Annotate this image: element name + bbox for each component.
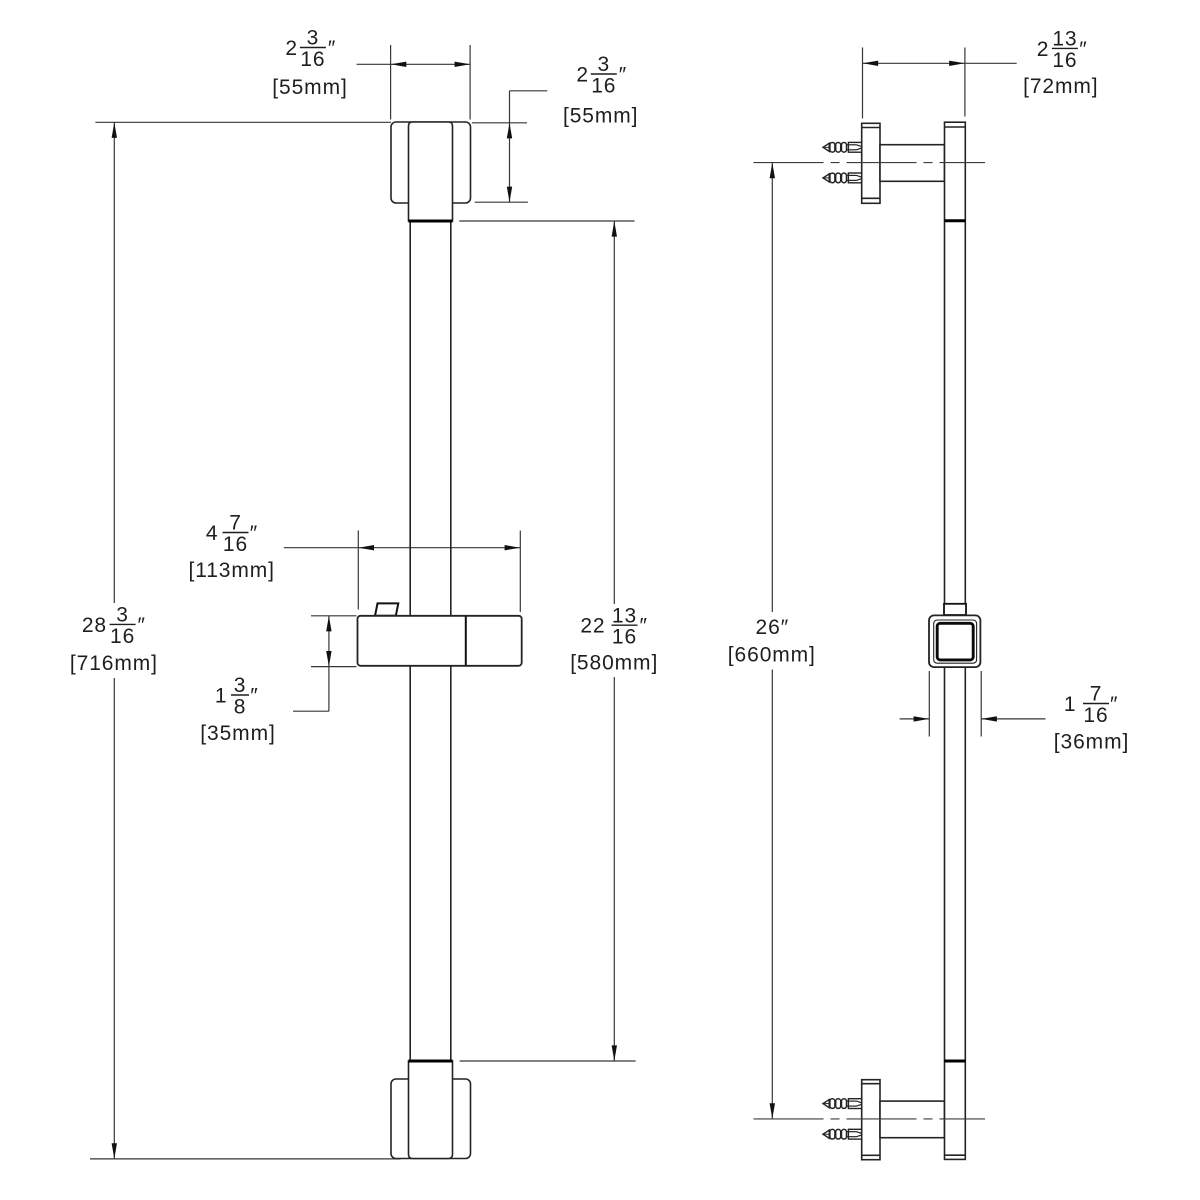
side view: bar bottom chamfer line <box>945 1154 966 1156</box>
svg-text:[55mm]: [55mm] <box>563 105 638 128</box>
svg-text:2: 2 <box>1037 38 1050 61</box>
dim 1 7/16in 36mm slider depth: label <box>1054 683 1129 754</box>
svg-text:28: 28 <box>82 614 107 637</box>
side view: slider middle square <box>934 620 977 663</box>
side view: slider lever collar <box>944 604 966 615</box>
svg-text:16: 16 <box>612 626 637 649</box>
dim 26in 660mm mounting centers: label <box>728 616 816 667</box>
dim 22 13/16in 580mm bar length: extension lines <box>459 221 635 1061</box>
side view: top mount arm <box>880 145 945 182</box>
svg-text:3: 3 <box>116 604 129 627</box>
dim 2 3/16in 55mm top width: dimension line <box>357 63 471 65</box>
dim 28 3/16in 716mm overall height: label <box>70 604 158 675</box>
dim 2 3/16in 55mm plate height: label <box>563 53 638 127</box>
dim 2 3/16in 55mm top width: extension lines <box>391 45 471 120</box>
svg-text:[36mm]: [36mm] <box>1054 731 1129 754</box>
svg-text:7: 7 <box>1090 683 1103 706</box>
dim 28 3/16in 716mm overall height: arrowheads <box>112 122 117 1158</box>
svg-text:1: 1 <box>215 684 228 707</box>
dim 1 7/16in 36mm slider depth: arrow lines <box>900 718 1046 720</box>
side view: top centerline <box>754 162 986 164</box>
side view: bottom wall plate chamfer lines <box>862 1084 880 1156</box>
svg-text:″: ″ <box>250 522 258 545</box>
side view: bottom centerline <box>754 1118 986 1120</box>
side view: slide bar body <box>945 122 966 1159</box>
dim 1 3/8in 35mm slider height: label <box>200 674 275 745</box>
svg-text:″: ″ <box>328 37 336 60</box>
side view: bottom wall plate <box>862 1080 880 1160</box>
svg-text:16: 16 <box>110 625 135 648</box>
svg-text:16: 16 <box>1083 704 1108 727</box>
dim 2 3/16in 55mm top width: label <box>272 27 347 99</box>
side view: top wall plate <box>862 123 880 203</box>
front view: bottom wall plate <box>391 1079 471 1159</box>
side view: top joint line <box>944 219 965 222</box>
svg-text:[580mm]: [580mm] <box>570 652 658 675</box>
svg-text:2: 2 <box>576 63 589 86</box>
svg-text:″: ″ <box>640 615 648 638</box>
svg-text:13: 13 <box>1052 28 1077 51</box>
svg-text:[55mm]: [55mm] <box>272 76 347 99</box>
dim 26in 660mm mounting centers: dimension line <box>771 163 773 1119</box>
svg-text:″: ″ <box>619 63 627 86</box>
svg-text:22: 22 <box>580 615 605 638</box>
front view: top bar holder <box>409 122 453 221</box>
side view: bottom joint line <box>944 1060 965 1063</box>
dim 2 13/16in 72mm depth: dimension line and leader <box>863 62 1017 64</box>
front view: top wall plate <box>391 122 471 203</box>
dim 22 13/16in 580mm bar length: dimension line <box>613 221 615 1061</box>
svg-text:[660mm]: [660mm] <box>728 644 816 667</box>
front view: bottom bar holder <box>409 1061 453 1159</box>
dim 2 13/16in 72mm depth: extension lines <box>863 48 965 119</box>
dim 4 7/16in 113mm slider width: arrowheads <box>359 545 521 550</box>
dim 28 3/16in 716mm overall height: dimension line <box>113 122 115 1159</box>
svg-text:″: ″ <box>1079 38 1087 61</box>
svg-text:2: 2 <box>285 37 298 60</box>
front view: slide bar body <box>410 221 451 1061</box>
side view: top mount screw lower <box>822 173 862 183</box>
svg-text:16: 16 <box>591 74 616 97</box>
dim 2 13/16in 72mm depth: arrowheads <box>863 61 965 66</box>
side view: slider inner square <box>937 623 973 660</box>
dim 1 3/8in 35mm slider height: arrowheads <box>326 616 331 667</box>
dim 2 13/16in 72mm depth: label <box>1023 28 1098 98</box>
dim 4 7/16in 113mm slider width: extension lines <box>358 531 520 613</box>
dim 2 3/16in 55mm plate height: dimension line with jog <box>510 91 548 202</box>
dim 2 3/16in 55mm plate height: extension lines <box>472 123 528 202</box>
side view: top mount screw upper <box>822 142 862 152</box>
dim 2 3/16in 55mm top width: arrowheads <box>391 62 470 67</box>
front view: slider lock lever <box>375 603 398 615</box>
svg-text:16: 16 <box>1052 49 1077 72</box>
dim 1 3/8in 35mm slider height: extension lines <box>311 616 357 667</box>
side view: slider outer square <box>929 615 980 667</box>
svg-text:″: ″ <box>250 684 258 707</box>
dim 2 3/16in 55mm plate height: arrowheads <box>507 123 512 202</box>
svg-text:8: 8 <box>234 695 247 718</box>
side view: bottom mount screw lower <box>822 1129 862 1139</box>
front view: bottom joint line <box>409 1060 453 1063</box>
svg-text:13: 13 <box>612 604 637 627</box>
dim 1 7/16in 36mm slider depth: arrowheads <box>914 716 997 721</box>
front view: slider body <box>358 616 522 666</box>
svg-text:[716mm]: [716mm] <box>70 652 158 675</box>
svg-text:″: ″ <box>138 614 146 637</box>
dim 1 7/16in 36mm slider depth: extension lines <box>929 671 981 737</box>
svg-text:1: 1 <box>1064 693 1077 716</box>
svg-text:[35mm]: [35mm] <box>200 722 275 745</box>
svg-text:16: 16 <box>300 48 325 71</box>
svg-text:3: 3 <box>598 53 611 76</box>
svg-text:26″: 26″ <box>756 616 790 639</box>
dim 22 13/16in 580mm bar length: arrowheads <box>612 221 617 1061</box>
dim 4 7/16in 113mm slider width: dimension line <box>284 547 521 549</box>
front view: top joint line <box>409 220 453 223</box>
dim 4 7/16in 113mm slider width: label <box>188 512 274 582</box>
svg-text:[113mm]: [113mm] <box>188 559 274 582</box>
dim 22 13/16in 580mm bar length: label <box>570 604 658 674</box>
svg-text:[72mm]: [72mm] <box>1023 75 1098 98</box>
svg-text:7: 7 <box>229 512 242 535</box>
svg-text:16: 16 <box>223 533 248 556</box>
side view: bar top chamfer line <box>945 126 966 128</box>
side view: bottom mount arm <box>880 1101 945 1138</box>
svg-text:3: 3 <box>234 674 247 697</box>
svg-text:″: ″ <box>1110 693 1118 716</box>
side view: bottom mount screw upper <box>822 1099 862 1109</box>
svg-text:4: 4 <box>206 522 219 545</box>
front view: slider divider line <box>465 616 467 665</box>
side view: top wall plate chamfer lines <box>862 128 880 199</box>
dim 1 3/8in 35mm slider height: dimension line with jog <box>293 616 329 711</box>
dim 26in 660mm mounting centers: arrowheads <box>770 163 775 1119</box>
svg-text:3: 3 <box>307 27 320 50</box>
dim 28 3/16in 716mm overall height: extension lines <box>90 122 400 1159</box>
